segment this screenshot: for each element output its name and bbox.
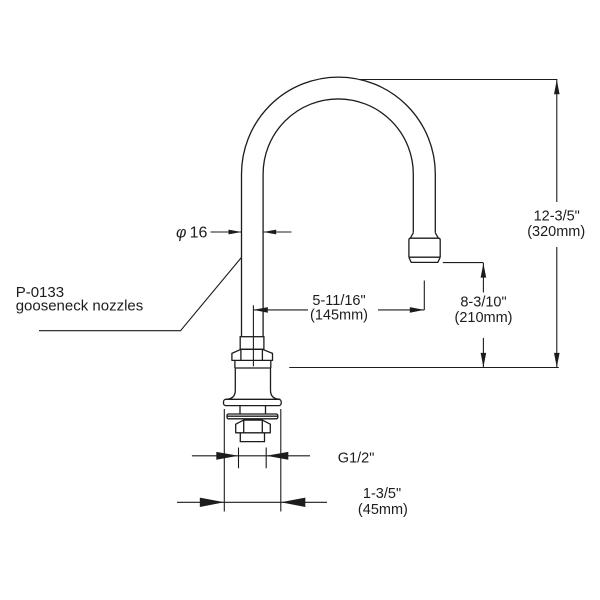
svg-text:(320mm): (320mm) — [527, 224, 585, 240]
8-3/10 top extension — [443, 262, 483, 264]
1-3/5 extension lines — [224, 409, 280, 512]
arrowhead 1-3/5 left-pointing — [281, 498, 306, 507]
arrowhead 12-3/5 up — [554, 80, 560, 94]
G1/2 extension lines — [239, 448, 267, 469]
svg-text:1-3/5": 1-3/5" — [363, 486, 401, 502]
arrowhead 12-3/5 down — [554, 353, 560, 367]
svg-text:12-3/5": 12-3/5" — [534, 209, 580, 225]
svg-text:G1/2": G1/2" — [338, 451, 375, 467]
shank end stub — [240, 433, 264, 442]
arrowhead 5-11/16 left-pointing — [253, 307, 267, 313]
5-11/16 right extension — [423, 281, 425, 311]
gooseneck tube outer profile — [242, 77, 436, 337]
svg-text:φ 16: φ 16 — [176, 225, 208, 242]
arrowhead 8-3/10 down — [481, 353, 487, 367]
arrowhead 5-11/16 right-pointing — [410, 307, 425, 313]
arrowhead 1-3/5 right-pointing — [200, 498, 225, 507]
svg-text:5-11/16": 5-11/16" — [312, 293, 365, 309]
nozzle body — [409, 238, 440, 257]
5-11/16 centerline extension — [252, 305, 254, 366]
datum reference line — [289, 367, 559, 369]
nozzle bottom cap — [409, 257, 440, 262]
hex lock nut — [236, 420, 271, 433]
bell escutcheon — [226, 368, 281, 399]
svg-text:(210mm): (210mm) — [454, 310, 512, 326]
hex lock nut facets — [244, 420, 263, 433]
washer mid line — [227, 415, 278, 417]
svg-text:(45mm): (45mm) — [358, 502, 408, 518]
arrowhead G1/2 right-pointing — [216, 452, 238, 460]
svg-text:8-3/10": 8-3/10" — [460, 295, 506, 311]
1-3/5 dimension line — [177, 501, 327, 503]
hex nut facets — [241, 349, 263, 360]
leader line P-0133 — [39, 257, 242, 330]
arrowhead 8-3/10 up — [481, 263, 487, 277]
neck below nut — [235, 360, 271, 368]
8-3/10 dimension line — [482, 263, 484, 368]
svg-text:gooseneck nozzles: gooseneck nozzles — [16, 298, 144, 315]
threaded shank — [240, 406, 266, 414]
12-3/5 dimension line — [556, 80, 558, 368]
arrowhead phi16 left-pointing — [263, 230, 276, 235]
hex nut (top) — [232, 349, 273, 360]
nozzle taper — [410, 233, 438, 238]
G1/2 dimension line — [192, 455, 310, 457]
12-3/5 top extension — [359, 79, 557, 81]
arrowhead G1/2 left-pointing — [266, 452, 288, 460]
svg-text:(145mm): (145mm) — [310, 307, 368, 323]
phi16 dimension lines — [211, 231, 292, 233]
washer — [227, 414, 278, 419]
gooseneck tube inner profile — [263, 99, 413, 337]
arrowhead phi16 right-pointing — [229, 230, 242, 235]
5-11/16 dimension line — [253, 309, 424, 311]
deck flange — [224, 399, 282, 405]
union collar — [240, 337, 264, 350]
